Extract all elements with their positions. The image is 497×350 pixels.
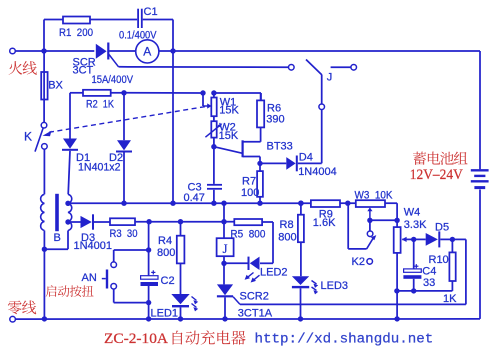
label C4 — [422, 266, 436, 278]
resistor R9 1.6K — [311, 200, 340, 207]
transformer B — [41, 194, 72, 249]
svg-text:R2 1K: R2 1K — [86, 99, 115, 111]
junction node — [222, 316, 227, 321]
junction node — [257, 161, 262, 166]
label LED2 — [260, 267, 288, 279]
junction node — [221, 201, 226, 206]
svg-text:R5 800: R5 800 — [230, 228, 265, 240]
label 3CT — [73, 65, 94, 77]
wire — [44, 20, 63, 52]
label SCR2 — [240, 291, 269, 303]
junction node — [394, 316, 399, 321]
resistor R10 1K — [449, 239, 455, 291]
junction node — [221, 261, 226, 266]
svg-text:R4: R4 — [158, 235, 172, 247]
svg-text:15K: 15K — [219, 105, 239, 117]
label W3 10K — [355, 189, 394, 201]
label R6 — [267, 103, 281, 115]
junction node secondary tap — [65, 219, 70, 224]
wire — [90, 19, 137, 21]
junction node — [298, 316, 303, 321]
potentiometer W4 3.3K — [394, 227, 414, 253]
wire — [43, 249, 45, 319]
junction node — [411, 288, 416, 293]
svg-text:0.47: 0.47 — [184, 192, 205, 204]
label J — [327, 72, 333, 84]
junction node — [121, 90, 126, 95]
label 1.6K — [313, 217, 336, 229]
junction node — [121, 201, 126, 206]
svg-text:LED3: LED3 — [321, 280, 349, 292]
junction node — [411, 237, 416, 242]
svg-text:15K: 15K — [219, 130, 239, 142]
svg-text:K2: K2 — [352, 256, 365, 268]
label R7 — [242, 176, 256, 188]
label 100 — [241, 187, 259, 199]
wire W3 wiper tie — [370, 219, 397, 221]
resistor R1 — [63, 17, 90, 24]
label 1K — [443, 293, 457, 305]
switch K — [35, 122, 47, 194]
caption url — [255, 332, 434, 348]
label 800 — [278, 231, 296, 243]
svg-text:R3 30: R3 30 — [110, 228, 138, 240]
capacitor C1 — [138, 9, 142, 28]
resistor R5 800 — [224, 219, 262, 225]
label R4 — [158, 235, 172, 247]
wire — [159, 50, 480, 52]
junction node — [41, 48, 46, 53]
svg-text:D4: D4 — [299, 152, 313, 164]
label 3.3K — [404, 219, 427, 231]
potentiometer W1 15K — [211, 93, 216, 121]
ammeter A — [136, 40, 159, 63]
svg-text:SCR2: SCR2 — [240, 291, 269, 303]
label LED3 — [321, 280, 349, 292]
junction node — [178, 219, 183, 224]
label R5 800 — [230, 228, 265, 240]
label W4 — [404, 207, 421, 219]
svg-text:390: 390 — [266, 114, 284, 126]
label 800 — [157, 247, 175, 259]
svg-text:A: A — [143, 45, 151, 59]
label R8 — [280, 219, 294, 231]
thyristor SCR2 3CT1A — [217, 284, 240, 319]
wire — [70, 92, 83, 94]
wire positive rail right — [479, 51, 481, 169]
label 15K — [219, 105, 239, 117]
wire — [397, 290, 453, 292]
capacitor C3 0.47 — [207, 147, 222, 204]
fuse BX — [41, 51, 47, 123]
junction node — [221, 219, 226, 224]
junction node — [146, 316, 151, 321]
capacitor C2 — [141, 270, 159, 302]
junction node — [211, 90, 216, 95]
LED LED1 — [171, 294, 198, 319]
label 15K — [219, 130, 239, 142]
label B — [54, 232, 61, 244]
wire SCR2 gate line — [240, 303, 466, 305]
junction node — [298, 201, 303, 206]
svg-text:100: 100 — [241, 187, 259, 199]
battery 蓄电池组 12V-24V — [471, 170, 489, 187]
junction node — [257, 201, 262, 206]
svg-text:1N4001: 1N4001 — [74, 240, 113, 252]
wire — [396, 253, 398, 319]
svg-text:K: K — [24, 130, 32, 144]
label D5 — [435, 222, 449, 234]
svg-text:C2: C2 — [161, 275, 175, 287]
label 390 — [266, 114, 284, 126]
wire — [44, 50, 94, 52]
wire — [135, 221, 224, 223]
junction node — [146, 300, 151, 305]
svg-text:800: 800 — [278, 231, 296, 243]
junction node — [42, 247, 47, 252]
junction node — [345, 201, 350, 206]
label C3 — [188, 182, 202, 194]
wire — [148, 303, 150, 319]
label C1 — [144, 6, 158, 18]
label R9 — [319, 209, 333, 221]
label D1 — [76, 152, 90, 164]
label W2 — [219, 121, 236, 133]
label 1N4004 — [298, 166, 337, 178]
label R2 1K — [86, 99, 115, 111]
resistor R6 390 — [257, 93, 264, 127]
capacitor C4 33 — [403, 239, 421, 291]
wire — [213, 138, 215, 147]
label R3 30 — [110, 228, 138, 240]
wire — [385, 203, 397, 227]
label 0.1/400V — [119, 30, 157, 42]
switch K2 — [348, 203, 376, 264]
label BX — [48, 80, 63, 92]
svg-text:BX: BX — [48, 80, 63, 92]
terminal, live wire input — [10, 48, 42, 54]
wire — [109, 50, 135, 52]
svg-text:1K: 1K — [443, 293, 457, 305]
svg-text:3CT1A: 3CT1A — [238, 307, 273, 319]
svg-text:ZC-2-10A: ZC-2-10A — [104, 331, 168, 347]
svg-text:3.3K: 3.3K — [404, 219, 427, 231]
relay coil J — [217, 238, 234, 256]
label BT33 — [267, 141, 293, 153]
svg-text:15A/400V: 15A/400V — [92, 74, 134, 86]
resistor R8 800 — [298, 203, 304, 276]
terminal, neutral wire — [10, 316, 480, 322]
label LED1 — [151, 308, 179, 320]
rheostat W2 15K — [205, 121, 222, 137]
label K2 — [352, 256, 365, 268]
resistor R3 30 — [110, 218, 135, 225]
label 33 — [423, 277, 435, 289]
wire mid rail — [68, 202, 311, 204]
svg-text:W3 10K: W3 10K — [355, 189, 394, 201]
junction node — [211, 201, 216, 206]
relay contact J — [289, 60, 357, 164]
svg-text:J: J — [327, 72, 333, 84]
diode D1 1N401x2 — [62, 93, 78, 195]
wire — [143, 20, 173, 204]
mechanical linkage dashed — [43, 107, 207, 137]
svg-text:800: 800 — [157, 247, 175, 259]
svg-text:1N4004: 1N4004 — [298, 166, 337, 178]
svg-text:R8: R8 — [280, 219, 294, 231]
junction node — [367, 218, 372, 223]
label 12V-24V — [410, 167, 463, 183]
wire — [262, 222, 273, 263]
unijunction transistor BT33 — [214, 127, 261, 163]
junction node secondary tap — [65, 201, 70, 206]
label 1N401x2 — [78, 162, 121, 174]
svg-text:C1: C1 — [144, 6, 158, 18]
label 1N4001 — [74, 240, 113, 252]
wire SCR gate line — [119, 66, 289, 68]
svg-text:1.6K: 1.6K — [313, 217, 336, 229]
junction node — [298, 201, 303, 206]
junction node — [178, 316, 183, 321]
svg-text:LED1: LED1 — [151, 308, 179, 320]
junction node — [146, 247, 151, 252]
label AN — [82, 272, 97, 284]
svg-text:C4: C4 — [422, 266, 436, 278]
caption 自动充电器 — [173, 330, 246, 344]
caption ZC-2-10A — [104, 331, 168, 347]
svg-text:LED2: LED2 — [260, 267, 288, 279]
LED LED2 — [224, 257, 273, 283]
diode D2 1N401x2 — [116, 93, 132, 203]
wire — [214, 93, 261, 100]
label 3CT1A — [238, 307, 273, 319]
label R10 — [429, 254, 449, 266]
wire — [223, 203, 225, 239]
svg-text:D5: D5 — [435, 222, 449, 234]
junction node — [394, 218, 399, 223]
junction node — [170, 201, 175, 206]
svg-text:http://xd.shangdu.net: http://xd.shangdu.net — [255, 332, 434, 348]
junction node — [170, 48, 175, 53]
diode D5 — [426, 231, 453, 247]
svg-text:AN: AN — [82, 272, 97, 284]
label 火线 (live) — [9, 61, 37, 75]
LED LED3 — [292, 276, 318, 319]
wire — [340, 202, 356, 204]
wire — [124, 92, 203, 94]
junction node — [450, 237, 455, 242]
label 蓄电池组 — [413, 152, 468, 165]
label 零线 (neutral) — [8, 300, 36, 314]
label 15A/400V — [92, 74, 134, 86]
svg-text:1N401x2: 1N401x2 — [78, 162, 121, 174]
label D2 — [109, 152, 123, 164]
resistor R2 — [83, 90, 111, 96]
potentiometer W3 10K — [356, 200, 385, 220]
svg-text:BT33: BT33 — [267, 141, 293, 153]
svg-text:12V–24V: 12V–24V — [410, 167, 463, 183]
svg-text:R1 200: R1 200 — [59, 27, 93, 39]
resistor R4 800 — [177, 222, 185, 294]
svg-text:J: J — [223, 242, 228, 256]
svg-text:W4: W4 — [404, 207, 421, 219]
junction node — [200, 90, 205, 95]
wire battery negative — [479, 190, 481, 319]
label SCR — [73, 57, 96, 69]
wire — [414, 238, 426, 240]
svg-text:R10: R10 — [429, 254, 449, 266]
push button AN — [102, 250, 149, 303]
label D3 — [81, 232, 95, 244]
diode D4 1N4004 — [260, 156, 322, 172]
label R1 200 — [59, 27, 93, 39]
label C2 — [161, 275, 175, 287]
wire — [369, 220, 371, 231]
svg-text:3CT: 3CT — [73, 65, 94, 77]
junction node — [146, 219, 151, 224]
wire — [223, 256, 225, 284]
label K — [24, 130, 32, 144]
wire — [111, 92, 124, 94]
wire — [452, 239, 466, 304]
junction node — [211, 144, 216, 149]
diode D3 1N4001 — [68, 214, 110, 229]
wire — [148, 222, 150, 276]
label W1 — [220, 96, 237, 108]
junction node — [42, 316, 47, 321]
label D4 — [299, 152, 313, 164]
thyristor SCR 3CT 15A/400V — [96, 43, 119, 67]
resistor R7 100 — [257, 163, 263, 203]
label 0.47 — [184, 192, 205, 204]
svg-text:B: B — [54, 232, 61, 244]
junction node — [394, 288, 399, 293]
svg-text:33: 33 — [423, 277, 435, 289]
potentiometer W1 15K wiper — [203, 93, 212, 109]
label 启动按扭 (start button) — [46, 285, 94, 297]
